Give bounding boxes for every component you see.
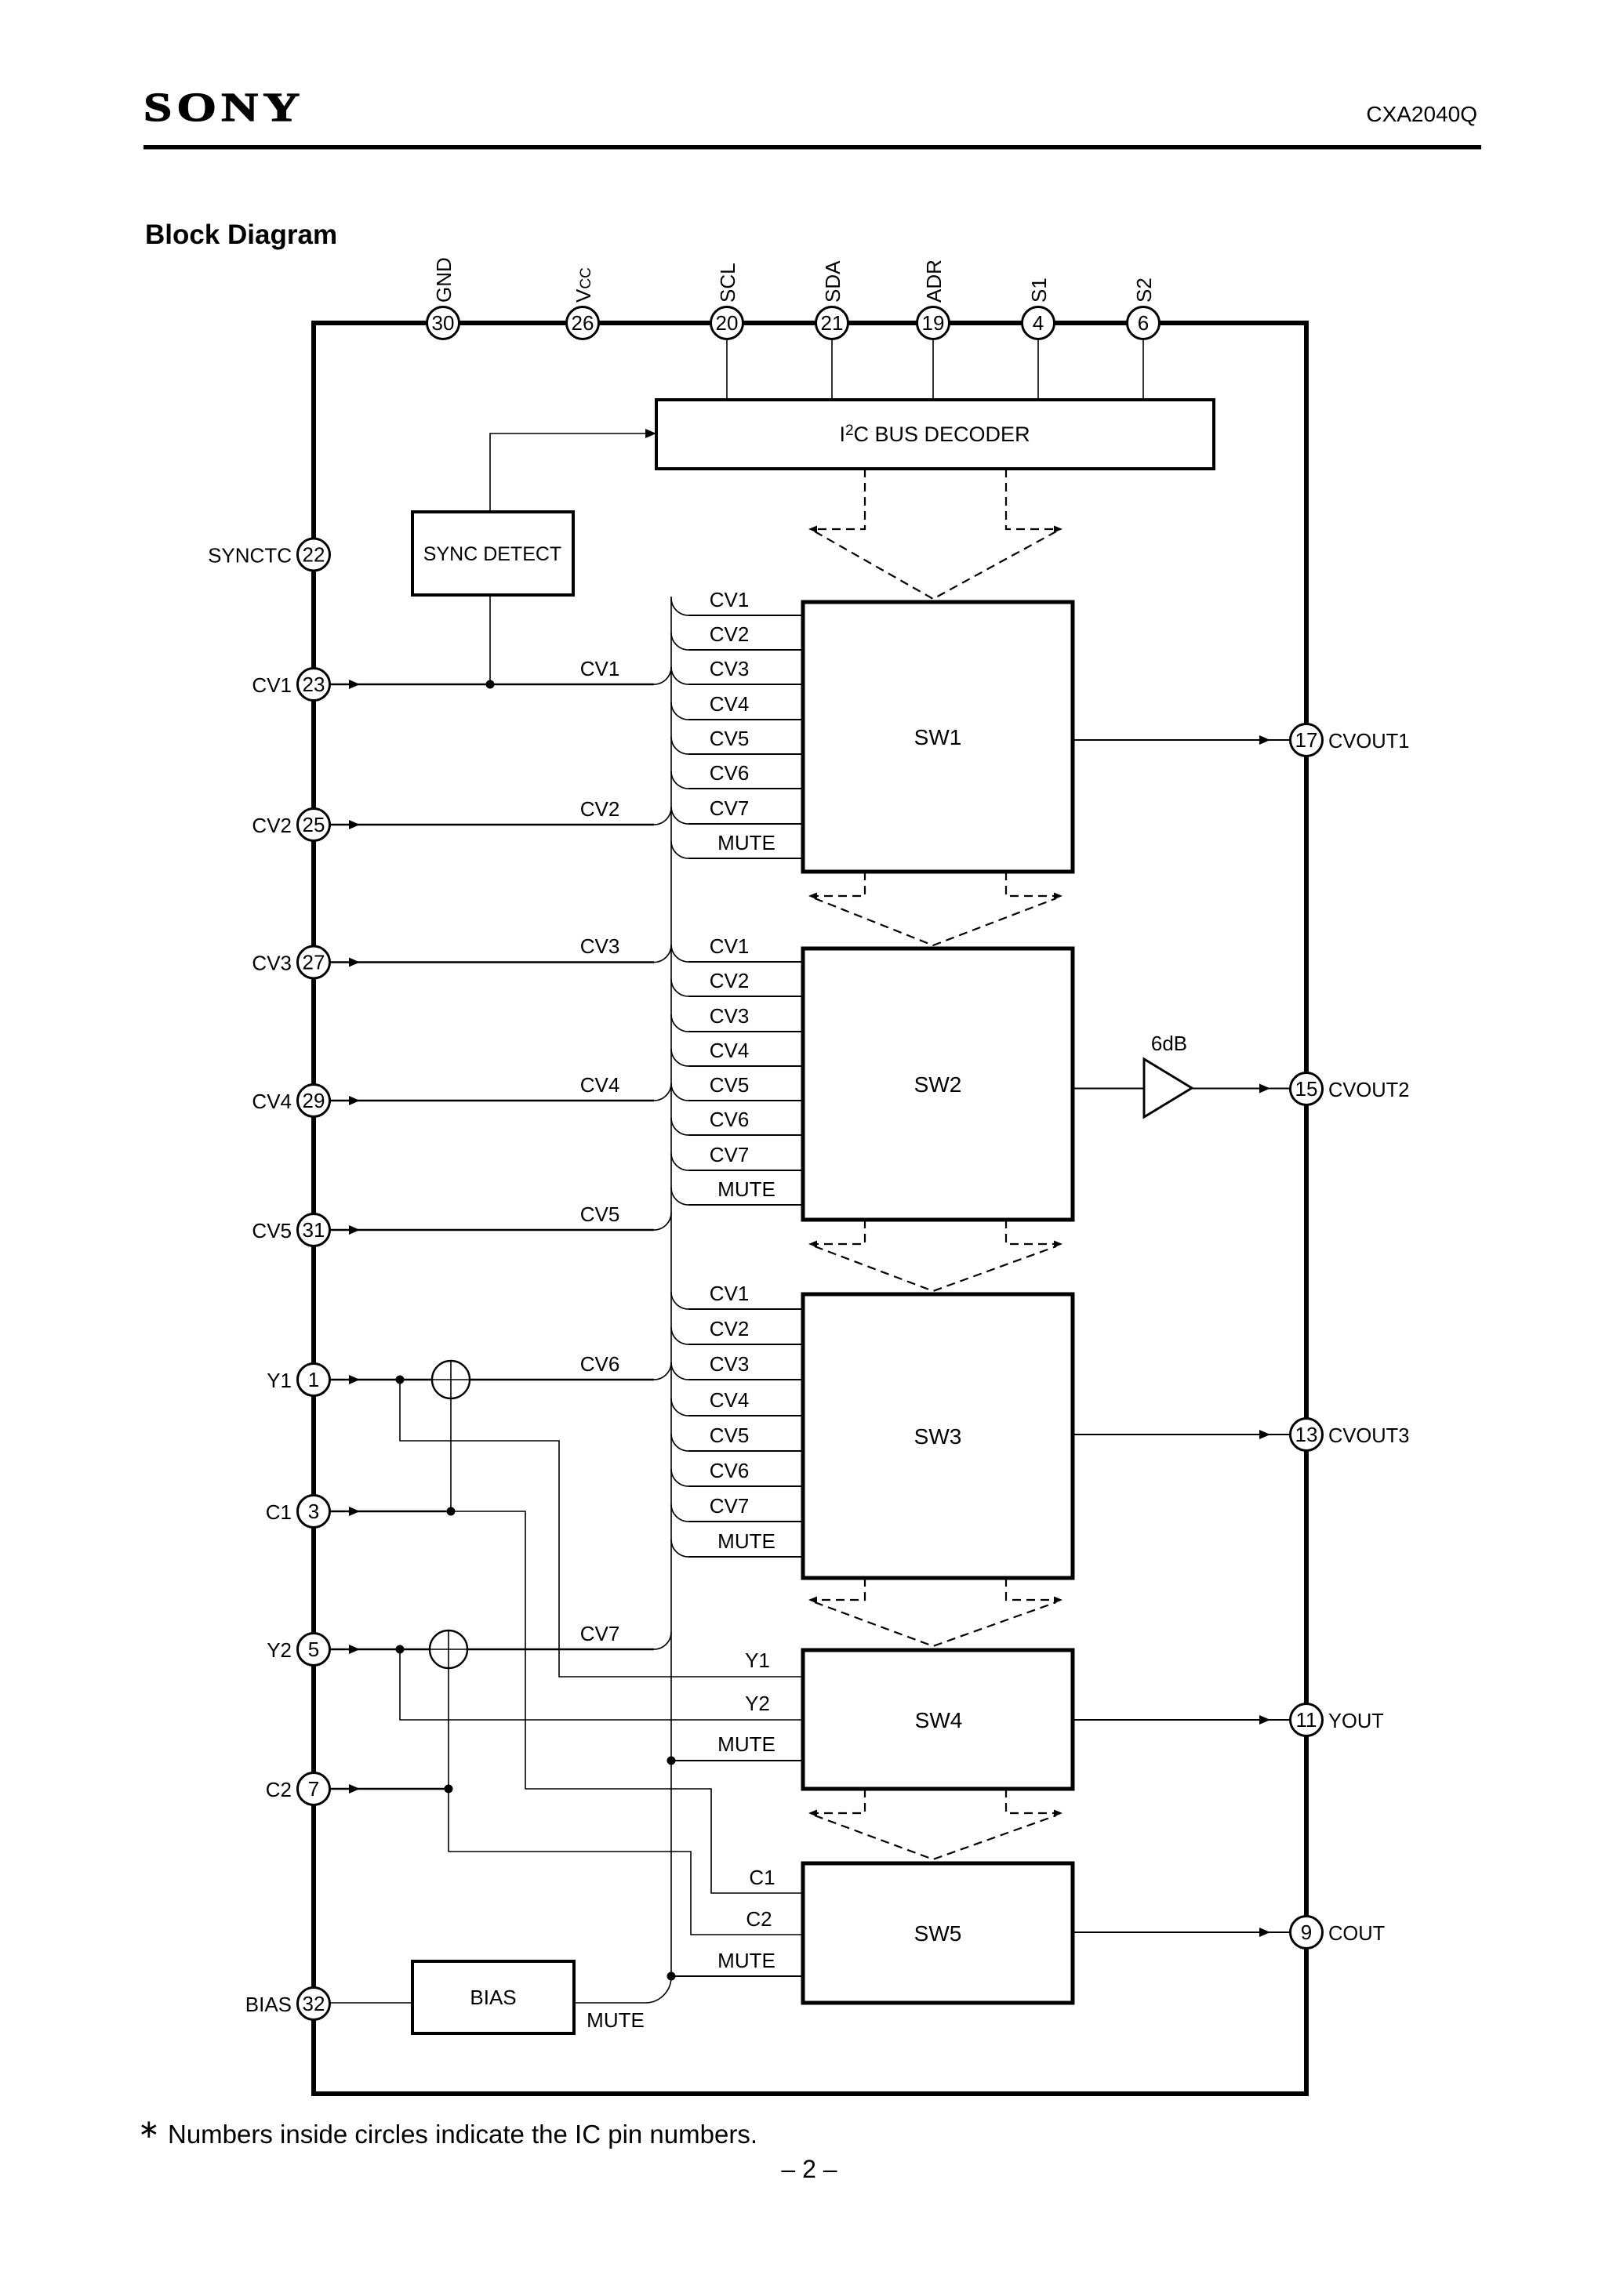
SW3 input row CV3 [671,1362,688,1380]
svg-text:ADR: ADR [922,259,946,303]
svg-text:CVOUT3: CVOUT3 [1328,1425,1409,1447]
summing node Y1+C1 [432,1361,470,1398]
pin 3 C1 [298,1496,330,1528]
SW2 input row MUTE [671,1188,688,1205]
svg-text:S1: S1 [1027,277,1051,303]
svg-text:SDA: SDA [821,260,845,303]
SW1 input row CV2 [671,633,688,650]
wire C2 into adder [448,1668,449,1789]
I2C BUS DECODER block [656,400,1214,469]
svg-text:CV3: CV3 [710,1004,750,1028]
wire SYNC DETECT tap to CV1 [489,595,491,684]
pin 25 CV2 [298,809,330,841]
wire CV1 from pin 23 [330,684,655,685]
wire CV6 composite output [470,1379,654,1380]
svg-text:9: 9 [1301,1921,1312,1944]
svg-text:GND: GND [432,257,456,303]
SW5 input row MUTE [667,1972,676,1981]
svg-text:CV2: CV2 [710,1317,750,1340]
svg-text:26: 26 [572,311,594,335]
svg-text:MUTE: MUTE [717,1177,775,1201]
wire C2 from pin 7 [330,1788,449,1790]
svg-text:CV2: CV2 [580,797,620,821]
wire Y1 from pin 1 [330,1379,433,1380]
pin 23 CV1 [298,669,330,701]
svg-text:SW4: SW4 [915,1708,963,1732]
svg-text:CV2: CV2 [710,969,750,992]
SW2 input row CV2 [671,979,688,996]
svg-text:23: 23 [303,673,325,696]
svg-text:1: 1 [308,1368,319,1391]
svg-text:Block Diagram: Block Diagram [145,219,337,250]
wire amp to CVOUT2 [1192,1088,1291,1090]
wire SDA stub [831,339,833,400]
SW2 input row CV1 [671,945,688,962]
SW2 input row CV4 [671,1049,688,1066]
main signal bus lane [574,597,671,2003]
dashed control arrow SW3 to SW4 [813,1578,865,1600]
svg-text:CV6: CV6 [710,1108,750,1131]
dashed control arrow decoder to SW1 [813,469,865,529]
SW3 input row MUTE [671,1540,688,1557]
svg-text:MUTE: MUTE [717,1529,775,1553]
svg-text:5: 5 [308,1638,319,1661]
pin 15 CVOUT2 [1291,1073,1323,1105]
pin 11 YOUT [1291,1704,1323,1736]
wire Y2 branch to SW4 [400,1649,803,1720]
svg-text:SW2: SW2 [914,1072,962,1097]
svg-text:– 2 –: – 2 – [781,2155,837,2183]
SW1 input row CV3 [671,667,688,684]
SW1 input row CV5 [671,737,688,754]
svg-text:Y2: Y2 [745,1692,770,1715]
wire C1 routed to SW5 [451,1511,803,1893]
pin 31 CV5 [298,1214,330,1246]
svg-text:Y1: Y1 [267,1369,292,1392]
svg-text:CV3: CV3 [580,934,620,958]
svg-text:SCL: SCL [716,263,739,303]
pin 4 S1 [1022,307,1055,339]
pin 27 CV3 [298,946,330,978]
svg-text:25: 25 [303,813,325,836]
wire ADR stub [932,339,934,400]
wire SW4 output YOUT [1073,1719,1291,1721]
svg-text:CV5: CV5 [252,1219,292,1242]
svg-text:MUTE: MUTE [587,2008,645,2032]
wire Y2 from pin 5 [330,1649,430,1650]
svg-text:CV3: CV3 [710,657,750,680]
pin 7 C2 [298,1773,330,1805]
svg-text:CV3: CV3 [710,1352,750,1376]
switch block SW5 [803,1863,1073,2003]
svg-text:SONY: SONY [143,85,305,129]
svg-text:BIAS: BIAS [470,1986,516,2009]
svg-text:CV6: CV6 [710,761,750,785]
svg-text:CV2: CV2 [252,814,292,837]
svg-text:C2: C2 [266,1778,292,1801]
svg-text:11: 11 [1296,1708,1317,1732]
summing node Y2+C2 [430,1630,467,1668]
svg-text:CVOUT2: CVOUT2 [1328,1079,1409,1101]
wire SW1 output CVOUT1 [1073,739,1291,741]
svg-text:CV2: CV2 [710,622,750,646]
wire SW3 output CVOUT3 [1073,1434,1291,1435]
svg-text:CV1: CV1 [710,934,750,958]
svg-text:CV1: CV1 [710,588,750,611]
svg-text:CXA2040Q: CXA2040Q [1366,102,1477,126]
SW1 input row CV4 [671,702,688,720]
svg-text:6: 6 [1138,311,1149,335]
svg-text:27: 27 [303,951,325,974]
BIAS block [412,1961,574,2033]
svg-text:CV6: CV6 [710,1459,750,1482]
svg-text:30: 30 [432,311,455,335]
SW3 input row CV1 [671,1292,688,1309]
SW2 input row CV7 [671,1153,688,1170]
svg-text:22: 22 [303,543,325,567]
svg-text:32: 32 [303,1992,325,2015]
svg-text:SW5: SW5 [914,1921,962,1946]
svg-text:CV5: CV5 [710,1073,750,1097]
wire C1 into adder [450,1398,452,1511]
svg-text:SW1: SW1 [914,725,962,749]
junction C2 [445,1785,453,1794]
svg-text:C2: C2 [746,1907,772,1931]
svg-text:CV4: CV4 [710,692,750,716]
svg-text:C1: C1 [749,1866,775,1889]
wire C1 from pin 3 [330,1511,452,1512]
dashed control arrow SW1 to SW2 [813,872,865,896]
SW3 input row CV6 [671,1469,688,1486]
svg-text:CV1: CV1 [710,1282,750,1305]
switch block SW3 [803,1294,1073,1578]
svg-text:17: 17 [1295,728,1318,752]
svg-text:∗: ∗ [138,2114,160,2143]
SW3 input row CV4 [671,1398,688,1416]
wire SW5 output COUT [1073,1931,1291,1933]
SW2 input row CV5 [671,1083,688,1101]
svg-text:I2C BUS DECODER: I2C BUS DECODER [839,423,1030,446]
svg-text:29: 29 [303,1089,325,1112]
6dB amplifier [1144,1059,1192,1117]
pin 26 Vcc [567,307,599,339]
wire SW2 output to amp [1073,1088,1144,1090]
SW1 input row MUTE [671,841,688,858]
pin 19 ADR [917,307,950,339]
svg-text:Y2: Y2 [267,1638,292,1662]
svg-text:CV4: CV4 [710,1039,750,1062]
SYNC DETECT block [412,512,573,595]
wire CV4 from pin 29 [330,1100,655,1101]
dashed control arrow SW2 to SW3 [813,1220,865,1244]
pin 30 GND [427,307,459,339]
svg-text:BIAS: BIAS [245,1993,292,2016]
switch block SW2 [803,949,1073,1220]
SW3 input row CV5 [671,1434,688,1451]
svg-text:19: 19 [922,311,945,335]
svg-text:MUTE: MUTE [717,1732,775,1756]
pin 6 S2 [1128,307,1160,339]
switch block SW4 [803,1650,1073,1789]
svg-text:15: 15 [1295,1077,1318,1101]
pin 21 SDA [816,307,848,339]
wire S1 stub [1037,339,1039,400]
svg-text:31: 31 [303,1218,325,1242]
svg-text:CV7: CV7 [710,1494,750,1518]
svg-text:MUTE: MUTE [717,831,775,854]
SW2 input row CV6 [671,1118,688,1135]
svg-text:21: 21 [821,311,844,335]
svg-text:7: 7 [308,1777,319,1801]
svg-text:CV1: CV1 [580,657,620,680]
junction Y1 branch [396,1376,405,1384]
svg-text:SYNC DETECT: SYNC DETECT [423,543,561,565]
svg-text:CV3: CV3 [252,952,292,975]
SW3 input row CV7 [671,1504,688,1522]
SW1 input row CV6 [671,771,688,789]
wire CV3 from pin 27 [330,961,655,963]
pin 20 SCL [711,307,743,339]
pin 17 CVOUT1 [1291,724,1323,756]
svg-text:CV7: CV7 [710,1143,750,1166]
svg-text:6dB: 6dB [1151,1032,1187,1055]
svg-text:YOUT: YOUT [1328,1710,1384,1732]
svg-text:C1: C1 [266,1500,292,1524]
svg-text:CV5: CV5 [580,1202,620,1226]
svg-text:SW3: SW3 [914,1424,962,1449]
switch block SW1 [803,602,1073,872]
svg-text:CV6: CV6 [580,1352,620,1376]
pin 9 COUT [1291,1917,1323,1949]
svg-text:CV4: CV4 [710,1388,750,1412]
SW3 input row CV2 [671,1327,688,1344]
svg-text:CV4: CV4 [252,1090,292,1113]
svg-text:CV4: CV4 [580,1073,620,1097]
svg-text:CV7: CV7 [580,1622,620,1645]
junction Y2 branch [396,1645,405,1654]
SW2 input row CV3 [671,1014,688,1032]
pin 1 Y1 [298,1364,330,1396]
svg-text:Numbers inside circles indicat: Numbers inside circles indicate the IC p… [168,2120,757,2149]
dashed control arrow SW4 to SW5 [813,1789,865,1813]
wire CV5 from pin 31 [330,1229,655,1231]
junction C1 to adder [447,1507,456,1516]
wire Y1 branch to SW4 [400,1380,803,1677]
svg-text:SYNCTC: SYNCTC [208,544,292,568]
pin 13 CVOUT3 [1291,1419,1323,1451]
wire pin 32 to BIAS [330,2002,413,2004]
svg-text:CV1: CV1 [252,673,292,697]
svg-text:MUTE: MUTE [717,1949,775,1972]
svg-text:CV5: CV5 [710,1424,750,1447]
wire CV7 composite output [467,1649,654,1650]
wire C2 routed to SW5 [449,1789,803,1935]
wire SCL stub [726,339,728,400]
pin 32 BIAS [298,1988,330,2020]
outer IC boundary box [314,323,1306,2094]
svg-text:CVOUT1: CVOUT1 [1328,731,1409,753]
svg-text:CV5: CV5 [710,727,750,750]
wire S2 stub [1142,339,1144,400]
svg-text:Y1: Y1 [745,1649,770,1672]
pin 22 SYNCTC [298,539,330,571]
svg-text:S2: S2 [1132,277,1156,303]
svg-text:CV7: CV7 [710,796,750,820]
svg-text:COUT: COUT [1328,1923,1385,1945]
wire SYNC DETECT to decoder [490,433,646,512]
pin 5 Y2 [298,1634,330,1666]
SW1 input row CV7 [671,807,688,824]
svg-text:20: 20 [716,311,739,335]
wire CV2 from pin 25 [330,824,655,825]
svg-text:3: 3 [308,1500,319,1523]
header rule [143,145,1481,150]
pin 29 CV4 [298,1085,330,1117]
svg-text:13: 13 [1295,1423,1318,1446]
SW4 input row MUTE [667,1757,676,1765]
svg-text:4: 4 [1033,311,1044,335]
SW1 input row CV1 [671,598,688,615]
junction on CV1 line [486,680,495,689]
